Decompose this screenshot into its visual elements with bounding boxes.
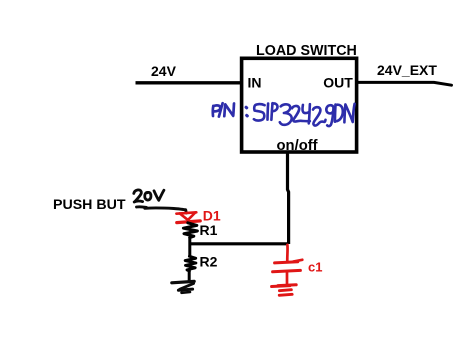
svg-text:24V_EXT: 24V_EXT: [377, 62, 437, 78]
D: [334, 105, 337, 122]
S: [254, 104, 265, 120]
2 (second): [313, 107, 326, 125]
wire push-button sketch to D1: [137, 207, 187, 213]
wire R2 to ground: [188, 271, 191, 282]
wire R1 to R2: [188, 237, 191, 257]
9: [326, 105, 333, 113]
colon: [245, 106, 249, 110]
diode D1: [176, 212, 200, 222]
resistor R1: [183, 223, 197, 238]
ground (c1 branch, red): [272, 285, 297, 296]
svg-text:R1: R1: [200, 222, 218, 238]
resistor R2: [185, 256, 196, 271]
ground (push-button branch): [172, 281, 194, 292]
N: [344, 104, 354, 123]
wire junction horizontal: [190, 242, 288, 245]
capacitor c1: [273, 260, 303, 272]
wire 24V_EXT output: [357, 82, 452, 85]
wire junction to capacitor (red): [286, 245, 289, 261]
svg-text:on/off: on/off: [277, 138, 318, 154]
I: [266, 104, 269, 120]
handwritten 20V: [134, 190, 164, 202]
svg-text:R2: R2: [200, 253, 218, 269]
handwritten part number : SIP32429DN (blue): [246, 103, 355, 126]
svg-text:24V: 24V: [151, 63, 177, 79]
2: [292, 106, 310, 122]
4: [303, 105, 309, 113]
P: [271, 103, 272, 120]
3: [280, 104, 292, 125]
svg-text:LOAD SWITCH: LOAD SWITCH: [256, 43, 357, 59]
wire on/off to junction: [288, 154, 289, 245]
handwritten P/N (blue): [213, 103, 234, 116]
load switch U1 body: [242, 58, 357, 152]
svg-text:PUSH BUT: PUSH BUT: [53, 197, 126, 213]
svg-text:OUT: OUT: [323, 74, 353, 90]
svg-text:IN: IN: [248, 74, 262, 90]
wire capacitor to ground (red): [286, 272, 289, 284]
svg-text:c1: c1: [308, 260, 322, 275]
wire 24V input: [136, 81, 243, 84]
